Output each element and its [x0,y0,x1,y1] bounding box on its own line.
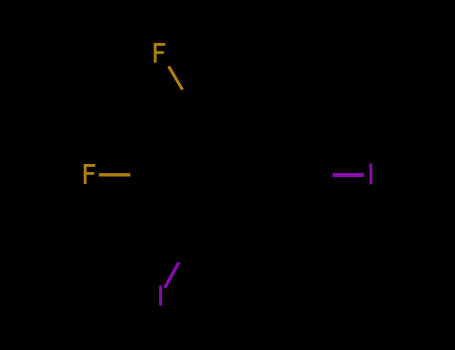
atom label F (left) [84,164,96,184]
bond C1–I bottom, I-colored half [165,262,179,288]
atom label I (right) [369,164,372,185]
bond C2–F left, F-colored half (horizontal) [99,173,130,176]
atom label F (top) [154,43,166,63]
bond C3–F top, F-colored half [169,66,183,90]
atom label I (bottom) [159,286,162,306]
bond C5–I right, I-colored half (horizontal) [333,173,365,177]
